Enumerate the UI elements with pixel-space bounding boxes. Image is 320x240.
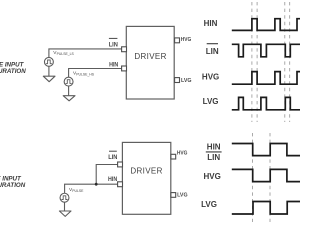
svg-text:HIN: HIN: [108, 176, 117, 183]
pin label LIN with overline (U1): [109, 38, 118, 48]
svg-text:CONFIGURATION: CONFIGURATION: [0, 68, 26, 75]
pulse source V1 (VPULSE_LS): [44, 57, 53, 66]
svg-text:LVG: LVG: [203, 97, 219, 106]
caption: double pulse input configuration (clipped at left edge): [0, 61, 26, 75]
dashed timing lines (bottom section): [252, 133, 270, 222]
junction node: [95, 183, 98, 186]
svg-text:HVG: HVG: [177, 151, 188, 157]
op driver U2 box: [122, 142, 170, 214]
svg-text:CONFIGURATION: CONFIGURATION: [0, 182, 26, 189]
wire: V1 to ground: [48, 66, 50, 76]
svg-text:HIN: HIN: [109, 62, 118, 69]
pin LIN (U1) square: [122, 47, 127, 52]
pin HIN (U1) square: [122, 66, 127, 71]
waveform HIN (top row 1): [232, 19, 301, 31]
svg-text:LIN: LIN: [206, 47, 219, 56]
label VPULSE_HS: [73, 70, 95, 76]
svg-text:HVG: HVG: [202, 73, 219, 82]
pin LIN (U2) square: [118, 162, 123, 167]
svg-text:HVG: HVG: [204, 172, 221, 181]
pulse source V2 (VPULSE_HS): [64, 77, 73, 86]
pin LVG (U2) square: [171, 193, 176, 198]
waveform HVG (bottom row 2): [232, 169, 301, 181]
pin HVG (U2) square: [171, 154, 176, 159]
pulse source V3 (VPULSE): [60, 193, 69, 202]
svg-text:HIN: HIN: [204, 19, 218, 28]
svg-text:LVG: LVG: [177, 192, 188, 198]
svg-text:HVG: HVG: [181, 37, 192, 43]
wire: V2 to ground: [68, 86, 70, 96]
waveform HIN/LIN (bottom row 1): [232, 144, 301, 156]
label VPULSE_LS: [53, 50, 74, 56]
waveform LVG (bottom row 3): [232, 202, 301, 215]
waveform label HIN/LIN stack (bottom): [206, 143, 222, 162]
waveform LIN (top row 2): [232, 44, 301, 57]
wire: VPULSE_HS to HIN pin (U1): [69, 69, 122, 78]
waveform HVG (top row 3): [232, 72, 301, 85]
svg-text:LIN: LIN: [207, 153, 220, 162]
pin label LIN with overline (U2): [108, 151, 117, 161]
svg-text:PULSE_LS: PULSE_LS: [57, 52, 75, 56]
svg-text:PULSE_HS: PULSE_HS: [76, 72, 94, 76]
svg-text:LVG: LVG: [201, 200, 217, 209]
svg-text:LIN: LIN: [108, 154, 117, 161]
svg-text:PULSE: PULSE: [72, 189, 84, 193]
waveform label LIN with overline (top): [206, 44, 219, 56]
wire: VPULSE to HIN pin (U2): [65, 184, 118, 193]
ground GND2: [63, 96, 75, 101]
wire: V3 to ground: [64, 202, 66, 211]
pin HVG (U1) square: [175, 38, 180, 43]
svg-text:DRIVER: DRIVER: [134, 52, 166, 61]
op driver U1 box: [126, 26, 174, 99]
svg-text:LIN: LIN: [109, 42, 118, 49]
caption: single pulse input configuration (clipped at left edge): [0, 175, 26, 189]
label VPULSE: [69, 187, 84, 193]
svg-text:HIN: HIN: [207, 143, 221, 152]
ground GND3: [59, 211, 71, 216]
svg-text:DRIVER: DRIVER: [130, 167, 162, 176]
svg-text:LVG: LVG: [181, 78, 192, 84]
pin LVG (U1) square: [175, 78, 180, 83]
waveform LVG (top row 4): [232, 97, 301, 109]
wire: VPULSE_LS to LIN pin (U1): [49, 49, 122, 57]
ground GND1: [43, 76, 55, 82]
pin HIN (U2) square: [118, 182, 123, 187]
wire: junction to LIN pin (U2): [96, 165, 117, 185]
dashed timing lines (top section): [252, 2, 290, 122]
